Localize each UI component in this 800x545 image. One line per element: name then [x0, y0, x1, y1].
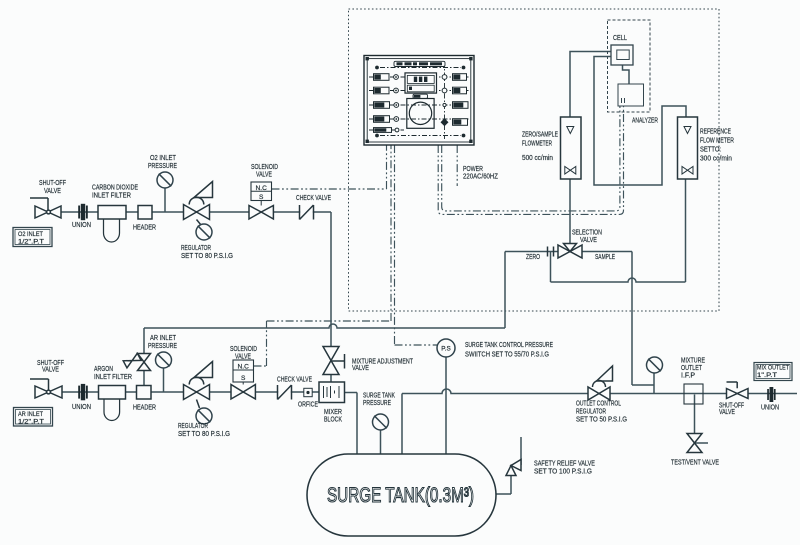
svg-text:500 cc/min: 500 cc/min	[522, 153, 553, 162]
svg-text:FLOW METER: FLOW METER	[700, 136, 734, 145]
svg-text:INLET FILTER: INLET FILTER	[92, 191, 131, 200]
svg-text:SET TO 80 P.S.I.G: SET TO 80 P.S.I.G	[181, 251, 233, 260]
svg-text:PRESSURE: PRESSURE	[148, 341, 177, 350]
svg-text:VALVE: VALVE	[352, 363, 369, 372]
svg-text:300 cc/min: 300 cc/min	[700, 154, 732, 163]
svg-text:VALVE: VALVE	[256, 170, 272, 179]
svg-text:VALVE: VALVE	[235, 352, 251, 361]
svg-text:HEADER: HEADER	[133, 223, 156, 232]
svg-text:SAMPLE: SAMPLE	[595, 252, 615, 261]
svg-text:INLET FILTER: INLET FILTER	[94, 372, 132, 381]
svg-text:HEADER: HEADER	[133, 403, 156, 412]
svg-text:1/2".P.T: 1/2".P.T	[18, 239, 44, 246]
svg-text:CHECK VALVE: CHECK VALVE	[296, 193, 331, 202]
svg-text:UNION: UNION	[72, 220, 91, 229]
svg-text:SET TO 50 P.S.I.G: SET TO 50 P.S.I.G	[576, 415, 627, 424]
svg-text:S: S	[241, 375, 246, 382]
svg-text:N.C: N.C	[238, 364, 250, 371]
svg-text:VALVE: VALVE	[42, 365, 59, 374]
svg-text:BLOCK: BLOCK	[324, 415, 342, 424]
svg-text:SURGE TANK(0.3M³): SURGE TANK(0.3M³)	[327, 484, 474, 507]
svg-text:AR INLET: AR INLET	[18, 411, 43, 418]
svg-text:ANALYZER: ANALYZER	[632, 116, 658, 125]
svg-text:VALVE: VALVE	[580, 235, 597, 244]
svg-text:SURGE TANK CONTROL PRESSURE: SURGE TANK CONTROL PRESSURE	[465, 340, 553, 349]
svg-text:ORFICE: ORFICE	[298, 400, 318, 409]
svg-text:1/2".P.T: 1/2".P.T	[18, 419, 44, 426]
svg-text:VALVE: VALVE	[719, 407, 735, 416]
svg-text:PRESSURE: PRESSURE	[363, 398, 391, 407]
svg-text:VALVE: VALVE	[44, 186, 61, 195]
svg-text:S: S	[259, 194, 264, 201]
svg-text:MIX OUTLET: MIX OUTLET	[757, 365, 789, 372]
svg-text:CHECK VALVE: CHECK VALVE	[277, 375, 312, 384]
svg-text:REFERENCE: REFERENCE	[700, 127, 731, 136]
svg-text:1".P.T: 1".P.T	[757, 372, 777, 379]
svg-text:220AC/60HZ: 220AC/60HZ	[463, 172, 498, 181]
svg-text:O2 INLET: O2 INLET	[18, 231, 43, 238]
svg-text:TEST/VENT VALVE: TEST/VENT VALVE	[671, 458, 719, 467]
svg-text:N.C: N.C	[256, 185, 268, 192]
svg-text:CELL: CELL	[613, 33, 627, 42]
svg-text:SET TO 80 P.S.I.G: SET TO 80 P.S.I.G	[178, 429, 230, 438]
svg-text:ZERO: ZERO	[526, 252, 540, 261]
svg-text:FLOWMETER: FLOWMETER	[522, 139, 552, 148]
svg-text:I.F.P: I.F.P	[681, 371, 695, 380]
svg-text:SETTO:: SETTO:	[700, 145, 721, 154]
svg-text:SWIITCH SET TO 55/70 P.S.I.G: SWIITCH SET TO 55/70 P.S.I.G	[465, 350, 549, 359]
svg-text:UNION: UNION	[761, 403, 779, 412]
svg-text:PRESSURE: PRESSURE	[148, 161, 177, 170]
svg-text:P.S: P.S	[441, 346, 450, 353]
svg-text:ZERO/SAMPLE: ZERO/SAMPLE	[522, 130, 558, 139]
svg-text:SET TO 100 P.S.I.G: SET TO 100 P.S.I.G	[534, 467, 592, 476]
svg-text:UNION: UNION	[72, 402, 91, 411]
